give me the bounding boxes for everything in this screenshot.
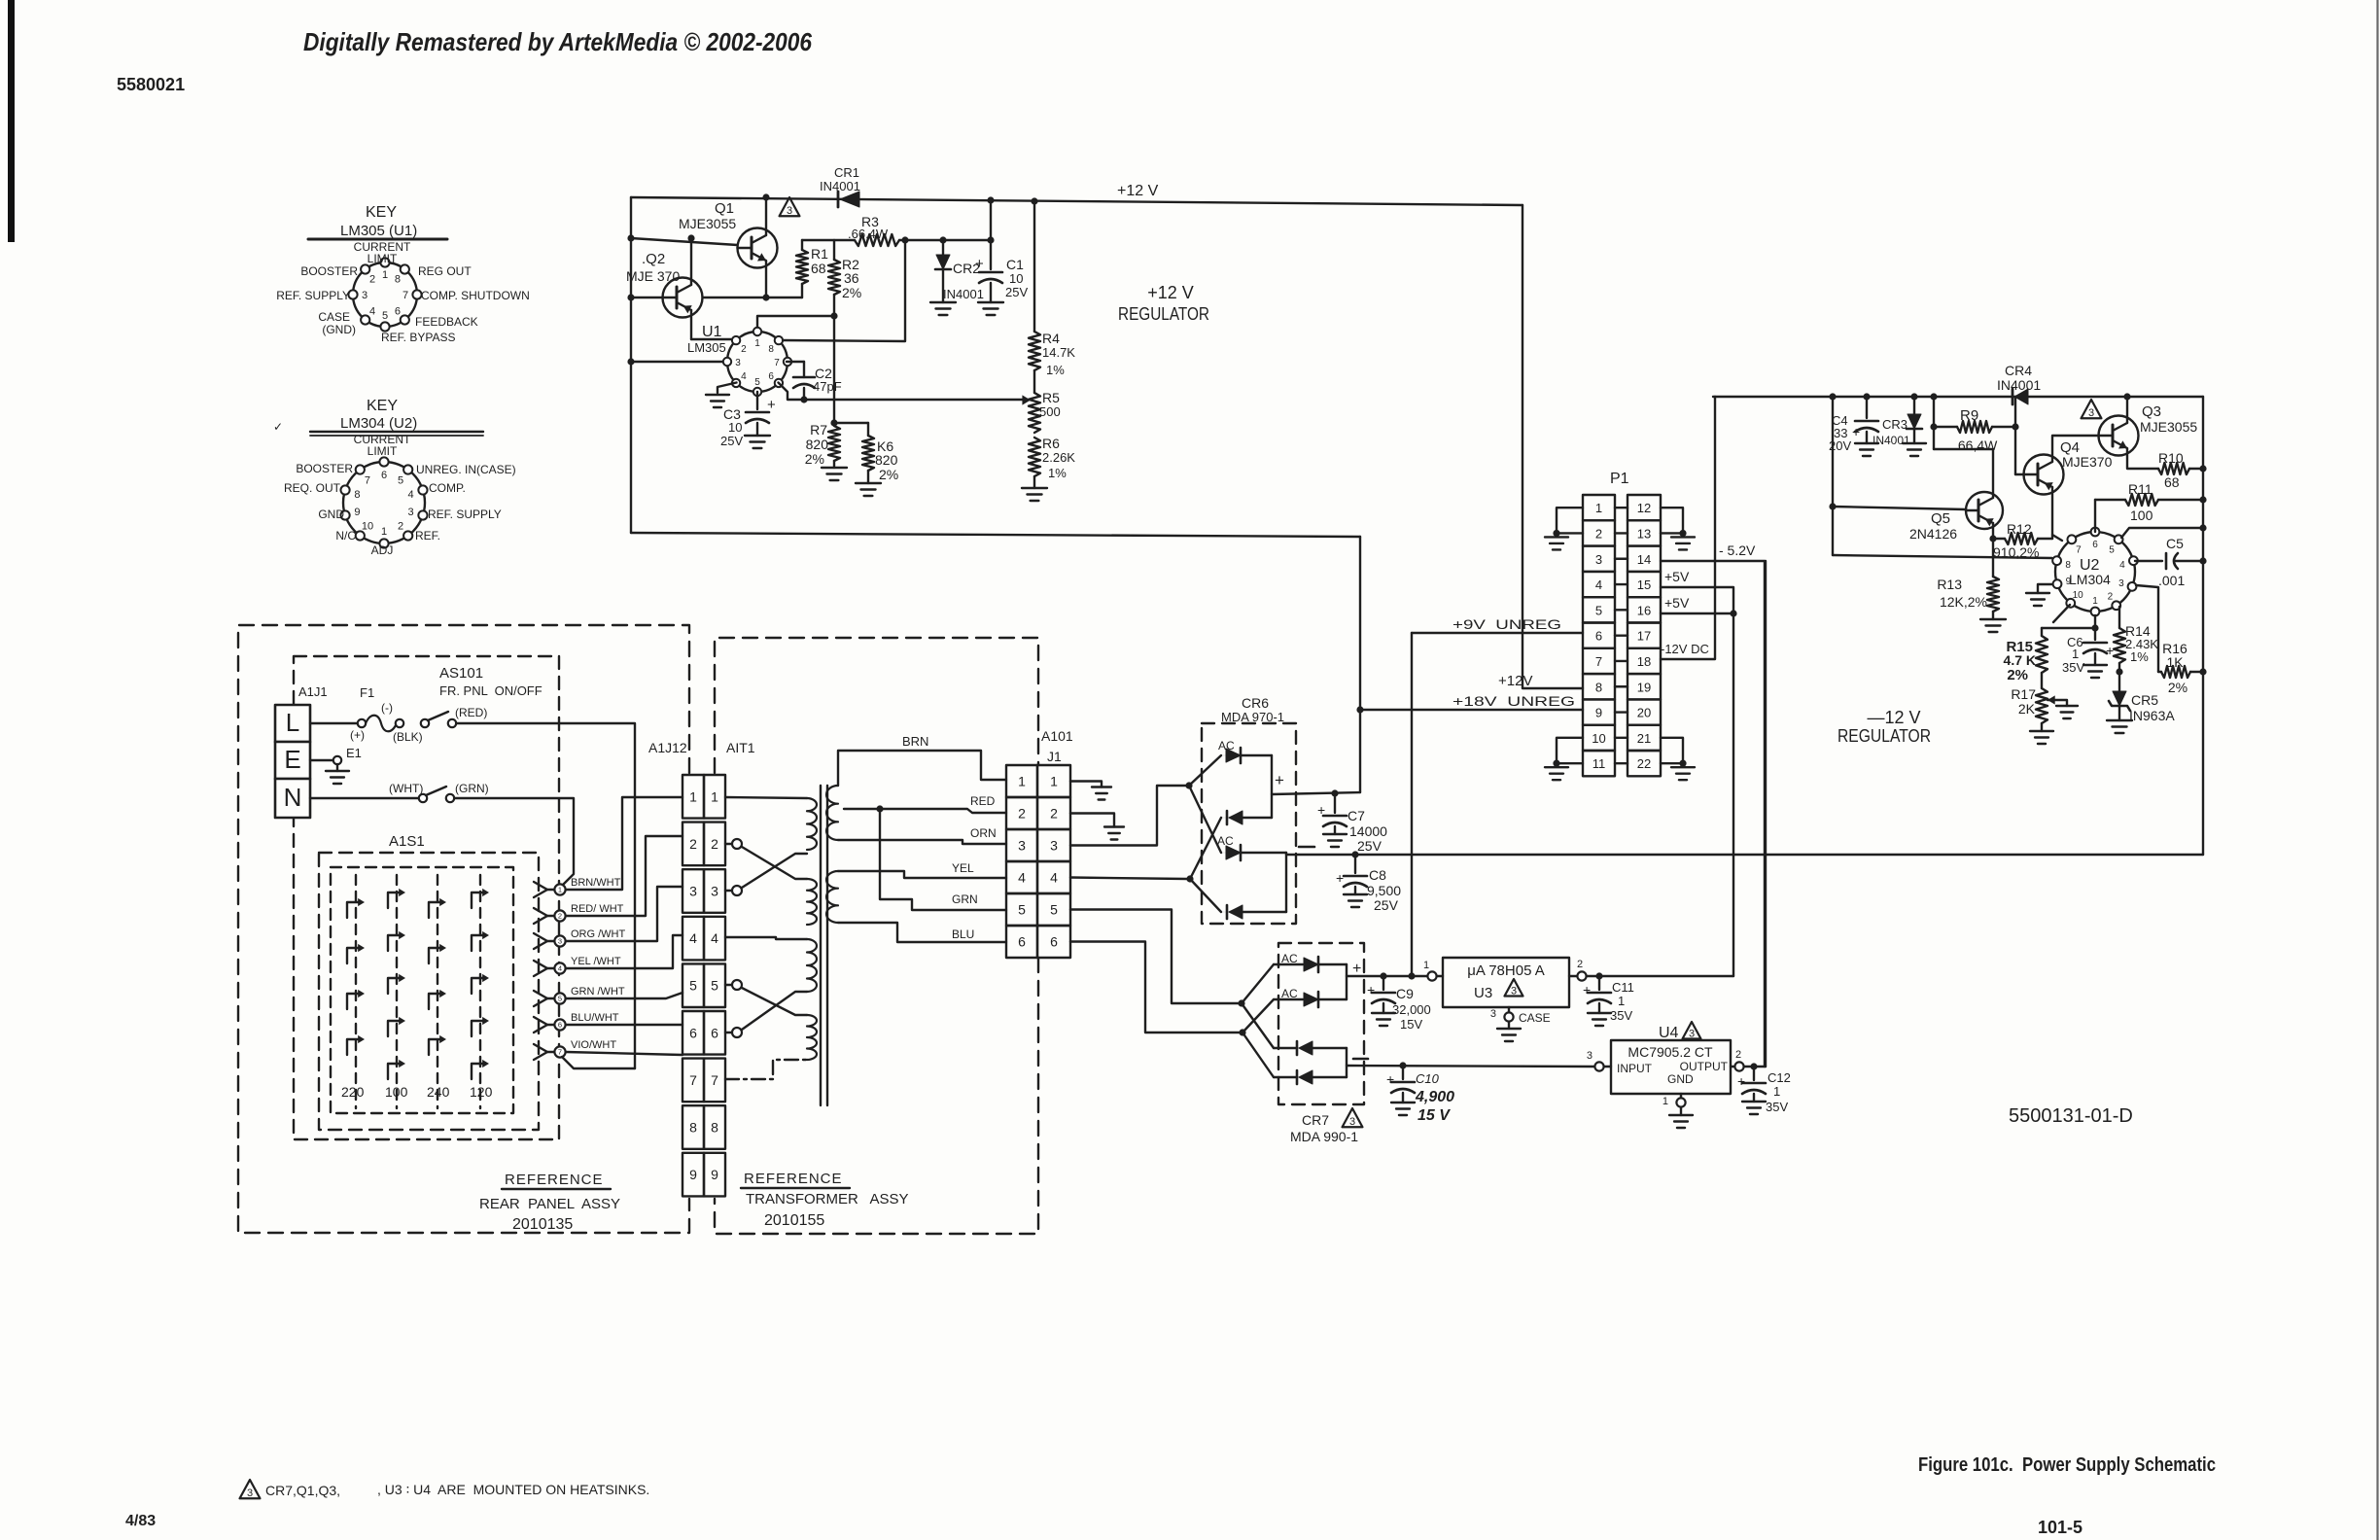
capacitor C6 <box>2083 628 2114 665</box>
svg-text:2: 2 <box>1595 526 1602 541</box>
wire A1T1 row4 tap <box>725 937 807 939</box>
wire CR7 plus out <box>1347 972 1427 979</box>
svg-text:3: 3 <box>2088 407 2094 419</box>
svg-text:R5: R5 <box>1042 390 1060 405</box>
label CR4 <box>1997 363 2041 393</box>
label A1S1 <box>389 833 425 850</box>
connector P1 left column <box>1583 495 1615 776</box>
wire +12V top rail <box>631 197 1522 205</box>
ground C12 <box>1742 1102 1766 1114</box>
svg-text:12: 12 <box>1637 501 1651 515</box>
svg-text:GRN /WHT: GRN /WHT <box>571 986 625 997</box>
svg-text:MC7905.2 CT: MC7905.2 CT <box>1627 1044 1713 1060</box>
capacitor C12 <box>1737 1067 1766 1102</box>
switch N pole <box>419 787 454 802</box>
svg-text:2: 2 <box>1050 806 1058 822</box>
svg-text:U4: U4 <box>1659 1025 1679 1041</box>
ground P1 pin13 <box>1671 537 1695 549</box>
svg-text:4: 4 <box>1595 577 1602 592</box>
svg-text:8: 8 <box>711 1120 718 1136</box>
label BLU <box>952 927 974 941</box>
wire U2 pin6 to R11 <box>2094 500 2096 532</box>
ground P1 pin22 <box>1671 767 1695 780</box>
svg-text:47pF: 47pF <box>813 379 842 394</box>
wire U4 output up (-5.2V) <box>1765 561 1767 1067</box>
svg-text:GRN: GRN <box>952 892 978 906</box>
resistor R13 <box>1987 577 1999 619</box>
wire divider node line <box>802 239 855 241</box>
wire +9V unreg vertical <box>1411 633 1413 976</box>
svg-text:5: 5 <box>382 310 388 322</box>
svg-text:(BLK): (BLK) <box>393 730 423 744</box>
diode CR7 D3 <box>1274 1041 1347 1055</box>
resistor R2 <box>828 240 840 316</box>
label +12V REGULATOR <box>1118 283 1209 324</box>
svg-text:1: 1 <box>689 788 697 804</box>
wire BLU/WHT <box>566 1024 682 1026</box>
wire GRN to selector wiper <box>454 798 574 886</box>
svg-text:UNREG. IN(CASE): UNREG. IN(CASE) <box>416 463 516 476</box>
label R13 <box>1937 577 1987 610</box>
wire CR6 upper diagonals <box>1189 755 1221 853</box>
svg-text:LIMIT: LIMIT <box>367 252 398 265</box>
svg-text:15: 15 <box>1637 577 1651 592</box>
node CR6 AC upper <box>1185 782 1192 788</box>
contact A1T1 row6 <box>725 1028 742 1037</box>
svg-text:3: 3 <box>1050 838 1058 854</box>
label U1 <box>687 324 726 355</box>
wire L to fuse <box>310 722 358 724</box>
label AS101 <box>439 665 542 698</box>
svg-text:10: 10 <box>728 420 742 435</box>
svg-text:2: 2 <box>2108 592 2114 603</box>
connector P1 row links <box>1615 507 1627 763</box>
svg-text:2: 2 <box>558 912 562 921</box>
capacitor C10 <box>1386 1066 1415 1102</box>
svg-text:16: 16 <box>1637 603 1651 617</box>
svg-text:BLU: BLU <box>952 927 974 941</box>
svg-text:68: 68 <box>811 261 826 276</box>
dashed box A1S1 inner <box>331 867 513 1113</box>
ground R8 <box>856 483 881 496</box>
wire R17 wiper <box>2047 695 2067 706</box>
label CR7 AC1 <box>1281 952 1298 965</box>
wire BRN/WHT <box>566 797 682 890</box>
wire CR7 upper diagonals <box>1242 964 1274 1048</box>
node CR6 AC lower <box>1186 875 1193 882</box>
diode CR7 D1 <box>1274 957 1347 972</box>
label C7 <box>1347 808 1387 854</box>
svg-text:4: 4 <box>369 306 375 318</box>
ground CR3 <box>1903 443 1926 456</box>
switch S ON/OFF <box>421 712 456 727</box>
svg-text:120: 120 <box>470 1084 493 1100</box>
svg-text:+: + <box>975 256 984 272</box>
pin U4 3 <box>1587 1050 1611 1071</box>
svg-text:14: 14 <box>1637 552 1651 567</box>
capacitor C4 <box>1852 397 1878 443</box>
label R2 <box>842 257 861 300</box>
label U2 <box>2069 557 2111 587</box>
svg-text:R4: R4 <box>1042 331 1060 346</box>
contact A1T1 row2 <box>725 839 742 849</box>
svg-text:8: 8 <box>689 1120 697 1136</box>
resistor R6 <box>1029 433 1040 488</box>
svg-text:A1S1: A1S1 <box>389 833 425 850</box>
ground C6 <box>2083 665 2107 678</box>
wire Q3 collector <box>2123 393 2130 423</box>
wire CR7 minus bus <box>1347 1048 1368 1077</box>
svg-text:ORG /WHT: ORG /WHT <box>571 928 625 940</box>
svg-text:MJE3055: MJE3055 <box>2140 419 2197 435</box>
svg-text:13: 13 <box>1637 526 1651 541</box>
wire U2 pin8 sense <box>1833 555 2052 558</box>
selector voltage labels <box>341 1084 493 1100</box>
connector P1 label <box>1610 471 1629 487</box>
node CR7 AC upper <box>1238 999 1244 1006</box>
svg-text:IN4001: IN4001 <box>943 287 984 301</box>
svg-text:R10: R10 <box>2158 450 2184 466</box>
svg-text:2: 2 <box>1577 959 1583 970</box>
svg-text:9: 9 <box>1595 706 1602 720</box>
svg-text:TRANSFORMER ASSY: TRANSFORMER ASSY <box>746 1191 909 1207</box>
diode CR6 D2 <box>1221 811 1272 824</box>
label R5 <box>1039 390 1061 419</box>
svg-text:5500131-01-D: 5500131-01-D <box>2009 1105 2133 1127</box>
wire RED switched line <box>456 723 635 1068</box>
svg-text:✓: ✓ <box>273 420 283 434</box>
wire Q2 node to R1 <box>703 297 803 298</box>
svg-text:CR6: CR6 <box>1242 695 1269 711</box>
key U1 ic circle <box>353 262 417 327</box>
label R6 <box>1042 436 1075 480</box>
svg-text:20: 20 <box>1637 706 1651 720</box>
transformer secondary winding S2 <box>826 871 838 923</box>
potentiometer R17 <box>2036 688 2047 731</box>
label C8 <box>1367 867 1401 913</box>
svg-text:C7: C7 <box>1347 808 1365 823</box>
wire CR6 plus bus <box>1272 755 1360 818</box>
wire Q1 emitter <box>762 262 769 301</box>
svg-text:REGULATOR: REGULATOR <box>1837 726 1931 746</box>
svg-text:REF. BYPASS: REF. BYPASS <box>381 331 455 344</box>
svg-text:MJE370: MJE370 <box>2062 454 2113 470</box>
svg-text:N/C: N/C <box>335 529 356 542</box>
svg-text:2N4126: 2N4126 <box>1909 526 1957 542</box>
svg-text:35V: 35V <box>1766 1100 1788 1114</box>
capacitor C11 <box>1583 976 1611 1013</box>
svg-text:FR. PNL ON/OFF: FR. PNL ON/OFF <box>439 683 542 698</box>
svg-text:μA 78H05 A: μA 78H05 A <box>1467 962 1545 979</box>
label U4 input <box>1617 1062 1653 1075</box>
resistor R9 <box>1934 421 2019 433</box>
svg-text:C9: C9 <box>1396 986 1414 1001</box>
wire Q5 collector down <box>1989 523 1996 577</box>
label R4 <box>1042 331 1075 377</box>
wire VIO/WHT <box>566 1052 682 1055</box>
diode CR4 <box>2012 389 2028 404</box>
ground R6 <box>1022 488 1047 501</box>
pin U4 1 gnd <box>1662 1094 1686 1115</box>
svg-text:10: 10 <box>362 520 373 532</box>
wire CR7 plus bus <box>1347 961 1361 999</box>
wire J1 pin4 to CR6 <box>1070 878 1187 880</box>
ground U4 pin1 <box>1669 1115 1693 1128</box>
wire P1 pins12-13 gnd <box>1661 507 1687 537</box>
ground J1 pin2 <box>1104 827 1124 840</box>
capacitor C8 <box>1336 851 1367 894</box>
label R12 <box>1993 521 2039 560</box>
svg-text:Digitally Remastered by ArtekM: Digitally Remastered by ArtekMedia © 200… <box>303 27 812 56</box>
svg-text:2%: 2% <box>805 451 824 467</box>
svg-text:3: 3 <box>362 290 367 301</box>
label CR6 <box>1221 695 1284 724</box>
heatsink triangle at Q3 <box>2082 400 2102 419</box>
svg-text:3: 3 <box>711 884 718 899</box>
key U2 pin labels <box>284 433 516 557</box>
svg-text:4: 4 <box>711 930 718 946</box>
label reference rear panel <box>479 1172 620 1233</box>
label CR6 AC upper <box>1218 739 1235 752</box>
resistor R11 <box>2095 494 2203 506</box>
label -5.2V <box>1719 542 1756 558</box>
heatsink triangle at U4 <box>1683 1022 1701 1040</box>
svg-text:+: + <box>1737 1073 1745 1089</box>
svg-text:+: + <box>1275 771 1284 789</box>
ground CR2 <box>930 302 956 315</box>
svg-text:MDA 990-1: MDA 990-1 <box>1290 1129 1358 1144</box>
svg-text:J1: J1 <box>1047 749 1062 764</box>
svg-text:(+): (+) <box>350 728 365 742</box>
label +18V UNREG <box>1452 693 1575 709</box>
label R15 <box>2004 639 2036 683</box>
page number 101-5 <box>2038 1518 2082 1537</box>
wire Q2 collector up <box>690 238 692 285</box>
pin U3 2 <box>1569 959 1733 981</box>
wire J1 pin5 to CR7 <box>1070 910 1239 1004</box>
svg-text:8: 8 <box>354 489 360 501</box>
svg-text:6: 6 <box>395 306 401 318</box>
svg-text:1: 1 <box>1423 960 1429 971</box>
transformer core <box>821 786 827 1105</box>
svg-text:- 5.2V: - 5.2V <box>1719 542 1756 558</box>
svg-text:2: 2 <box>741 344 747 355</box>
svg-text:(WHT): (WHT) <box>389 782 423 795</box>
svg-text:C1: C1 <box>1006 257 1024 272</box>
ground C1 <box>978 302 1003 315</box>
svg-text:FEEDBACK: FEEDBACK <box>415 315 478 329</box>
svg-text:10: 10 <box>1009 271 1023 286</box>
ground R13 <box>1980 619 2006 632</box>
svg-text:5: 5 <box>398 475 403 487</box>
label +5V pin16 <box>1664 595 1690 611</box>
label reference transformer <box>741 1171 909 1229</box>
svg-text:REG OUT: REG OUT <box>418 264 472 278</box>
svg-text:2%: 2% <box>842 285 861 300</box>
svg-text:+12 V: +12 V <box>1147 283 1194 302</box>
svg-text:1: 1 <box>1595 501 1602 515</box>
svg-text:15 V: 15 V <box>1417 1107 1451 1124</box>
svg-text:C10: C10 <box>1416 1071 1440 1086</box>
label C5 <box>2158 536 2185 588</box>
mark U2 pin10 nc <box>2053 605 2070 622</box>
svg-text:2: 2 <box>369 273 375 285</box>
ground U2 pin9 <box>2026 593 2049 606</box>
svg-text:7: 7 <box>402 290 408 301</box>
label A1J12 <box>648 740 687 755</box>
svg-text:2: 2 <box>398 520 403 532</box>
svg-text:REQ. OUT: REQ. OUT <box>284 481 341 495</box>
transistor Q3 <box>2099 416 2139 456</box>
pin U3 1 <box>1423 960 1443 981</box>
svg-text:KEY: KEY <box>367 398 398 414</box>
ground C3 <box>745 436 770 448</box>
resistor R4 <box>1029 197 1040 393</box>
heatsink triangle at CR7 <box>1343 1108 1363 1128</box>
svg-text:(RED): (RED) <box>455 706 487 719</box>
label RED <box>970 794 996 808</box>
label C4 <box>1829 413 1851 453</box>
svg-text:BRN: BRN <box>902 734 928 749</box>
wire R2 node down to R7 <box>830 316 837 427</box>
figure caption <box>1918 1454 2216 1476</box>
label R10 <box>2158 450 2184 490</box>
diode CR6 D4 <box>1221 905 1286 919</box>
svg-text:6: 6 <box>1595 629 1602 644</box>
svg-text:F1: F1 <box>360 685 374 700</box>
svg-text:7: 7 <box>1595 654 1602 669</box>
svg-text:5: 5 <box>2109 545 2115 556</box>
dashed box CR6 <box>1202 723 1296 924</box>
svg-text:1: 1 <box>1050 774 1058 789</box>
label A101 J1 <box>1041 728 1073 764</box>
label Q5 <box>1909 510 1957 542</box>
label Q4 <box>2060 439 2113 470</box>
wire +9V UNREG to pin6 <box>1412 632 1583 634</box>
svg-text:CASE: CASE <box>1519 1011 1551 1025</box>
svg-text:1: 1 <box>1018 774 1026 789</box>
svg-text:+: + <box>767 397 776 413</box>
svg-text:1: 1 <box>382 269 388 281</box>
svg-text:15V: 15V <box>1400 1017 1422 1032</box>
svg-text:1: 1 <box>1618 994 1625 1008</box>
wire Q1 base line <box>627 234 737 245</box>
svg-text:R13: R13 <box>1937 577 1962 592</box>
svg-text:4,900: 4,900 <box>1415 1089 1454 1105</box>
svg-text:LIMIT: LIMIT <box>367 444 398 458</box>
wire CR4 to Q4 base <box>2015 397 2024 474</box>
connector J1 right column <box>1037 765 1070 958</box>
ic U2 pins <box>2052 528 2138 616</box>
label U4 type <box>1627 1044 1713 1060</box>
key U1 title <box>308 204 447 239</box>
svg-text:4: 4 <box>689 930 697 946</box>
label U4 <box>1659 1025 1679 1041</box>
svg-text:100: 100 <box>385 1084 408 1100</box>
wire YEL secondary <box>838 871 1006 878</box>
wire BRN secondary <box>838 751 1006 786</box>
label fuse polarity <box>350 701 423 744</box>
resistor R15 <box>2036 628 2047 688</box>
ground C7 <box>1323 834 1347 847</box>
wire +18V drop to CR6 plus <box>1359 537 1361 792</box>
wire sense vertical <box>1829 397 1836 555</box>
svg-text:C8: C8 <box>1369 867 1386 883</box>
label A1T1 <box>726 740 755 755</box>
svg-text:+: + <box>1386 1071 1394 1087</box>
svg-text:LM304 (U2): LM304 (U2) <box>340 415 417 432</box>
zener CR5 <box>2109 672 2130 720</box>
svg-text:RED: RED <box>970 794 996 808</box>
wire Q2 emitter down <box>691 310 731 339</box>
wire tap cross 2-3b <box>742 854 807 888</box>
svg-text:7: 7 <box>2076 545 2082 556</box>
connector P1 right column <box>1627 495 1661 776</box>
svg-text:35V: 35V <box>2062 660 2084 675</box>
connector J1 left column <box>1006 765 1037 958</box>
dashed box transformer assy <box>715 638 1038 1234</box>
contact A1T1 row3 <box>725 886 742 895</box>
svg-text:820: 820 <box>875 452 898 468</box>
svg-text:REAR PANEL ASSY: REAR PANEL ASSY <box>479 1196 620 1212</box>
svg-text:7: 7 <box>689 1072 697 1088</box>
svg-text:1: 1 <box>1662 1096 1668 1107</box>
wire U1 pin6 to R5 wiper <box>779 383 1032 405</box>
svg-text:+: + <box>1336 870 1344 886</box>
ground R17 <box>2030 731 2053 744</box>
diode CR2 <box>935 240 951 302</box>
label (GRN) <box>455 782 489 795</box>
wire Q5 base <box>1833 507 1966 509</box>
svg-text:6: 6 <box>711 1025 718 1040</box>
svg-text:2%: 2% <box>2168 680 2187 695</box>
ground J1 pin1 <box>1092 787 1111 800</box>
label CR7 AC2 <box>1281 987 1298 1000</box>
key U1 pins <box>348 258 421 331</box>
svg-text:R11: R11 <box>2128 481 2152 497</box>
ic U3 box <box>1443 958 1569 1007</box>
svg-text:5: 5 <box>711 978 718 994</box>
label R3 <box>848 214 889 241</box>
svg-text:C5: C5 <box>2166 536 2184 551</box>
svg-text:14.7K: 14.7K <box>1042 345 1075 360</box>
svg-text:17: 17 <box>1637 629 1651 644</box>
pin U4 2 <box>1731 1049 1766 1071</box>
label R11 <box>2128 481 2153 523</box>
svg-text:A101: A101 <box>1041 728 1073 744</box>
contact A1T1 row5 <box>725 980 742 990</box>
heatsink triangle at U3 <box>1505 979 1523 997</box>
wire A1T1 row7 shield <box>725 1060 807 1079</box>
wire -12V top rail <box>1713 393 2203 400</box>
transistor Q2 <box>663 278 703 318</box>
svg-text:C11: C11 <box>1612 980 1634 995</box>
svg-text:12K,2%: 12K,2% <box>1940 594 1987 610</box>
svg-text:IN4001: IN4001 <box>1997 377 2041 393</box>
svg-text:.Q2: .Q2 <box>642 251 665 267</box>
ic U2 circle <box>2055 532 2135 612</box>
label +12 V (rail) <box>1117 183 1159 199</box>
transistor Q5 <box>1966 492 2003 529</box>
svg-text:AIT1: AIT1 <box>726 740 755 755</box>
svg-text:GND: GND <box>1667 1072 1694 1086</box>
svg-text:1: 1 <box>754 338 760 349</box>
transformer secondary winding S1 <box>826 786 838 840</box>
label (WHT) <box>389 782 423 795</box>
svg-text:4/83: 4/83 <box>125 1513 156 1529</box>
label R7 <box>805 422 828 467</box>
transistor Q1 <box>738 228 778 268</box>
